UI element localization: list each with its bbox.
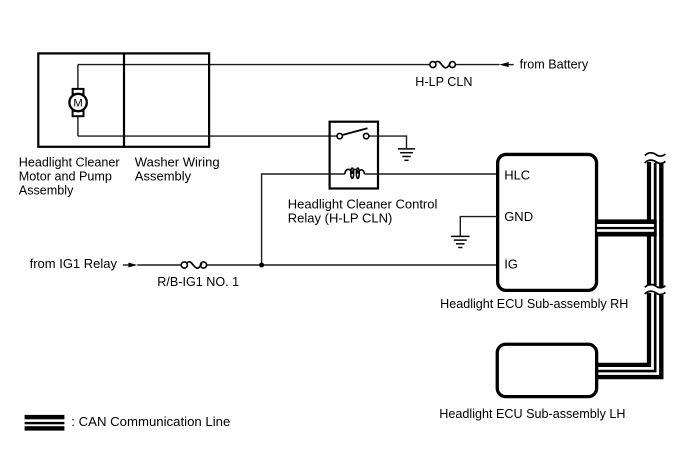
svg-text:Assembly: Assembly bbox=[135, 169, 192, 184]
ECU LH box (Headlight ECU Sub-assembly LH) bbox=[497, 344, 596, 396]
CAN bus vertical segment A (3 parallel lines) bbox=[649, 162, 661, 288]
svg-text:: CAN Communication Line: : CAN Communication Line bbox=[71, 414, 230, 429]
relay box (headlight cleaner control relay) bbox=[330, 122, 378, 189]
relay coil bbox=[345, 168, 365, 178]
fuse R/B-IG1 NO. 1 bbox=[181, 262, 206, 268]
motor M (headlight cleaner motor) bbox=[69, 89, 86, 116]
svg-text:Headlight Cleaner Control: Headlight Cleaner Control bbox=[288, 196, 438, 211]
arrow: from Battery (pointing left) bbox=[499, 62, 514, 67]
svg-text:from Battery: from Battery bbox=[520, 57, 589, 71]
ground (ECU GND) bbox=[451, 236, 469, 247]
wire: relay coil to HLC pin bbox=[365, 173, 498, 175]
wire: battery feed line (top horizontal) bbox=[78, 64, 500, 66]
svg-text:GND: GND bbox=[504, 209, 533, 224]
svg-text:Headlight Cleaner: Headlight Cleaner bbox=[19, 156, 120, 170]
svg-text:Relay (H-LP CLN): Relay (H-LP CLN) bbox=[288, 211, 393, 226]
svg-text:Headlight ECU Sub-assembly LH: Headlight ECU Sub-assembly LH bbox=[439, 407, 625, 421]
wire: motor to relay switch (horizontal) bbox=[78, 135, 337, 137]
legend symbol: CAN communication line sample bbox=[25, 415, 65, 431]
svg-text:IG: IG bbox=[504, 257, 518, 272]
svg-text:from IG1 Relay: from IG1 Relay bbox=[30, 256, 118, 271]
svg-text:Washer Wiring: Washer Wiring bbox=[135, 155, 220, 170]
label: Washer Wiring Assembly bbox=[135, 155, 220, 184]
node: junction of IG wire and relay coil branch bbox=[259, 263, 264, 268]
svg-text:Headlight ECU Sub-assembly RH: Headlight ECU Sub-assembly RH bbox=[440, 297, 628, 311]
label: Headlight Cleaner Control Relay (H-LP CLN) bbox=[288, 196, 438, 225]
CAN bus break tilde (middle pair) bbox=[645, 284, 666, 294]
wire: GND pin to ground bbox=[460, 217, 497, 236]
ECU RH box (Headlight ECU Sub-assembly RH) bbox=[498, 154, 597, 290]
label: Headlight Cleaner Motor and Pump Assembly bbox=[19, 156, 120, 198]
svg-text:M: M bbox=[73, 97, 82, 109]
CAN bus segment B with corner to ECU LH (3 nested L lines) bbox=[598, 293, 661, 377]
svg-text:Assembly: Assembly bbox=[19, 184, 74, 198]
fuse H-LP CLN bbox=[430, 61, 456, 67]
wire: motor top lead bbox=[77, 65, 79, 89]
wire: motor bottom lead bbox=[77, 116, 79, 136]
svg-text:R/B-IG1 NO. 1: R/B-IG1 NO. 1 bbox=[157, 275, 239, 289]
svg-text:HLC: HLC bbox=[504, 168, 530, 183]
relay switch contacts bbox=[337, 128, 369, 139]
arrow: from IG1 Relay (pointing right) bbox=[123, 263, 138, 268]
wire: IG feed line (bottom horizontal) bbox=[137, 264, 497, 266]
CAN branch to ECU RH (T junction) bbox=[597, 219, 657, 236]
ground (relay switch ground) bbox=[398, 149, 415, 160]
wire: switch to ground bbox=[369, 136, 407, 148]
svg-text:Motor and Pump: Motor and Pump bbox=[19, 170, 112, 184]
CAN bus break tilde (top pair) bbox=[645, 153, 666, 164]
svg-text:H-LP CLN: H-LP CLN bbox=[415, 75, 472, 89]
wire: IG branch up to relay coil bbox=[262, 174, 345, 265]
washer wiring assembly box bbox=[38, 53, 209, 147]
